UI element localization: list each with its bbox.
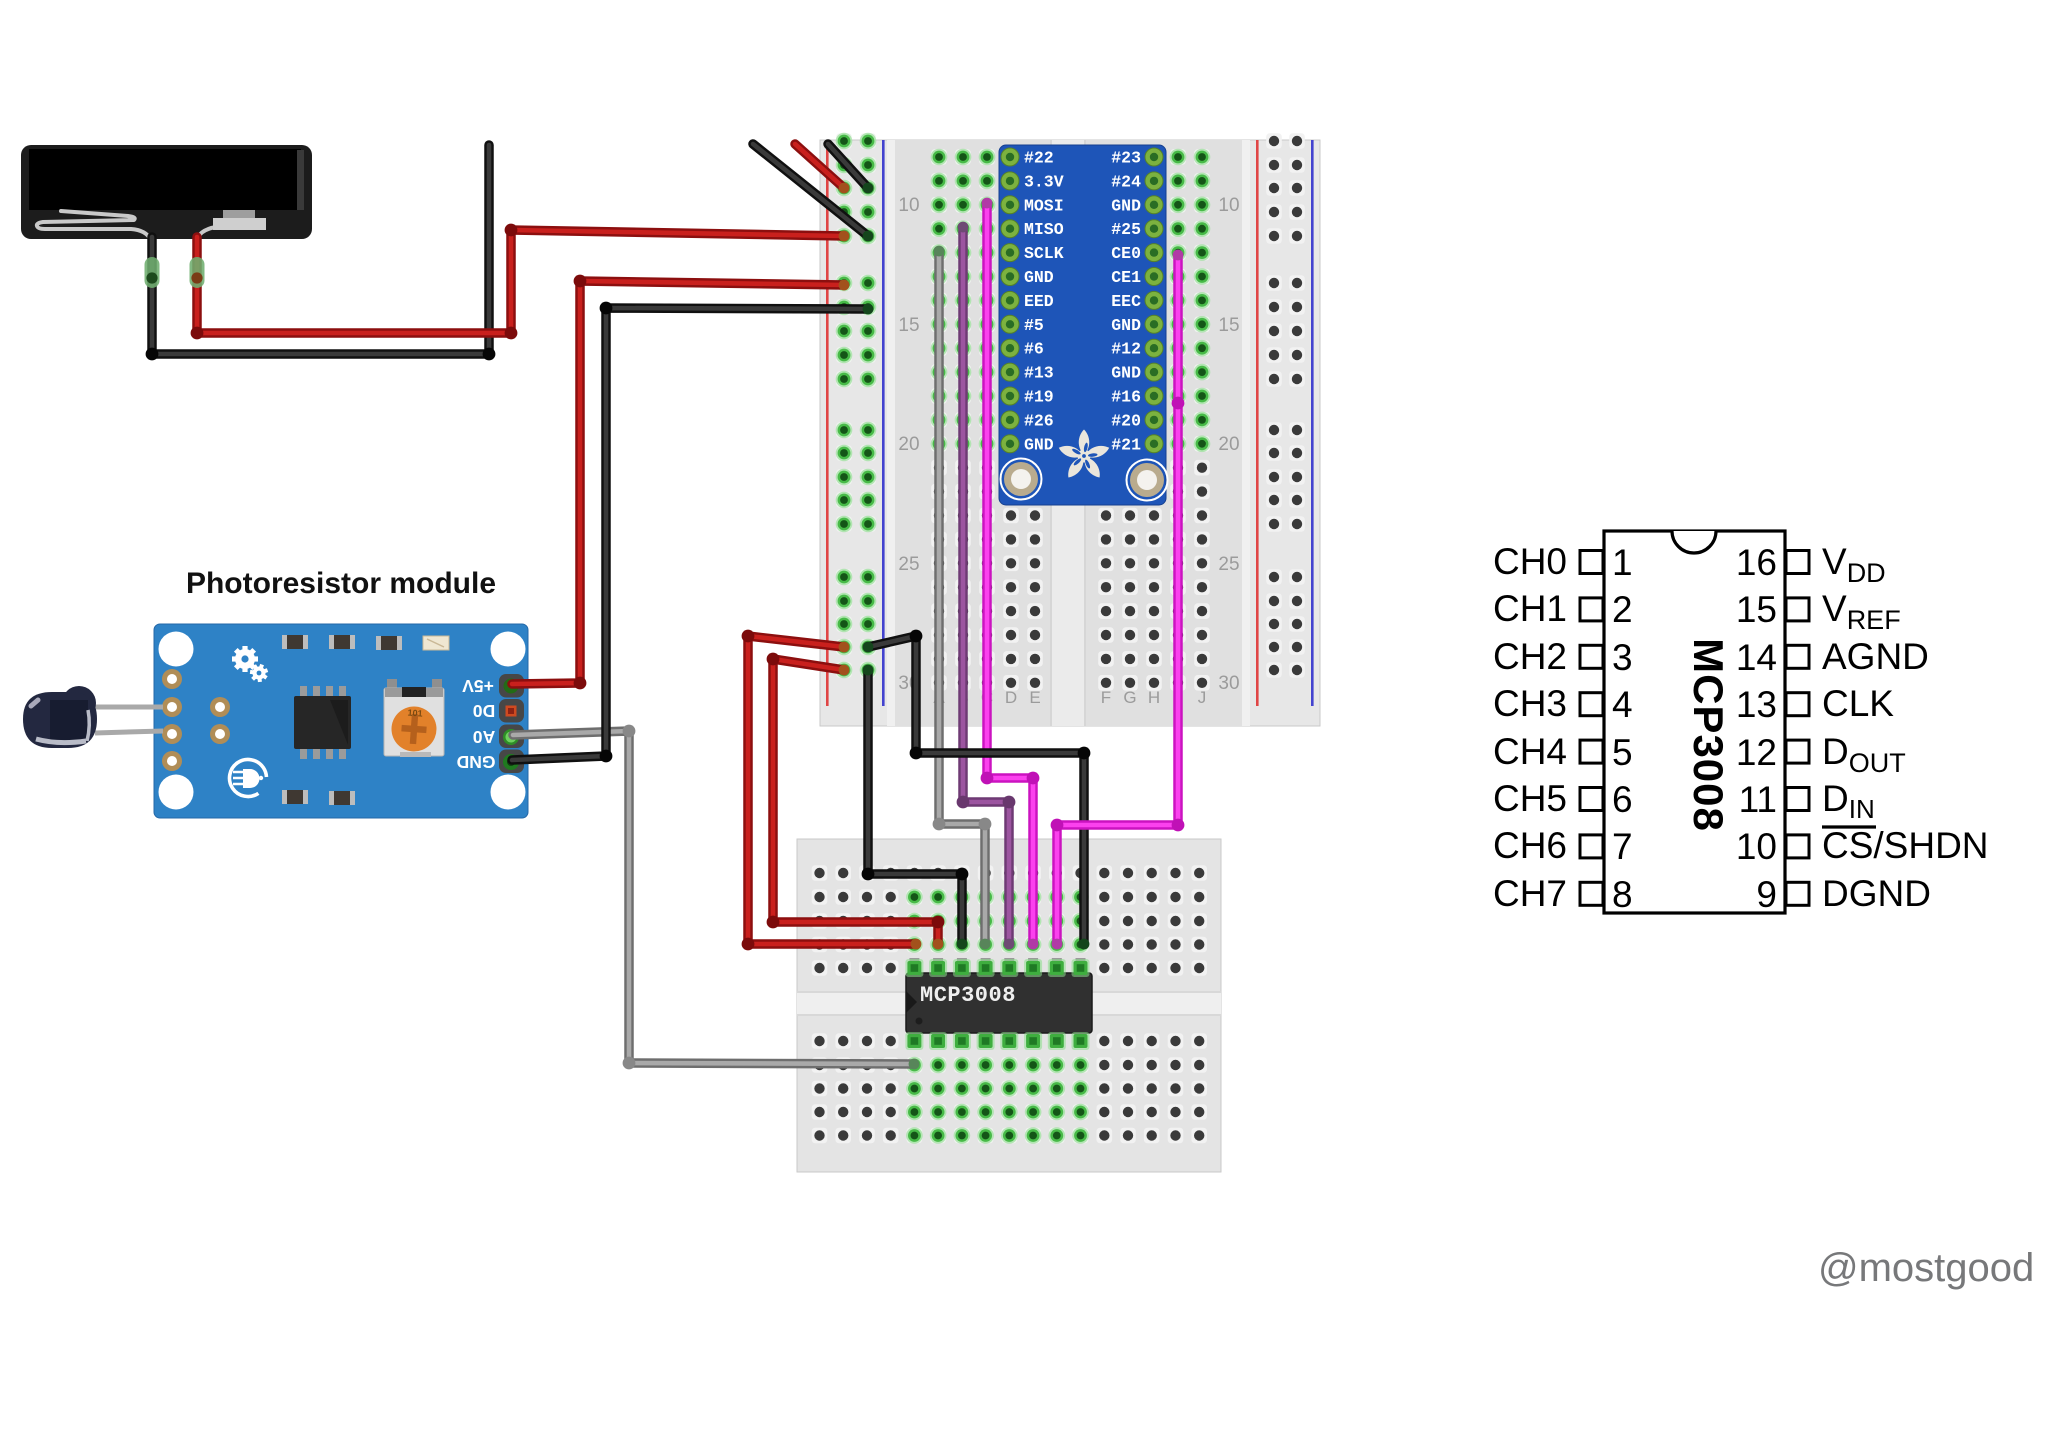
svg-text:13: 13 <box>1736 684 1777 725</box>
speaker red connector band <box>190 257 205 288</box>
IC U1 MCP3008 body <box>906 973 1092 1033</box>
wire black rail to ADC A <box>863 630 1091 950</box>
svg-text:CH5: CH5 <box>1493 778 1567 819</box>
svg-text:VREF: VREF <box>1822 588 1901 635</box>
svg-text:#19: #19 <box>1024 388 1054 407</box>
svg-text:#26: #26 <box>1024 411 1054 430</box>
svg-text:10: 10 <box>898 195 919 216</box>
MCP3008 pinout diagram <box>1604 531 1785 913</box>
svg-text:15: 15 <box>1218 315 1239 336</box>
wire black jumper A to rail <box>753 144 873 241</box>
wire module GND black <box>512 302 873 763</box>
svg-text:#21: #21 <box>1111 435 1141 454</box>
svg-text:15: 15 <box>898 315 919 336</box>
main board hole grid <box>931 149 1211 691</box>
svg-text:25: 25 <box>1218 554 1239 575</box>
right rail - line <box>1311 140 1314 706</box>
svg-text:9: 9 <box>1756 874 1777 915</box>
Pi cobbler module <box>999 145 1168 505</box>
svg-text:CH0: CH0 <box>1493 541 1567 582</box>
wire module A0 gray <box>513 725 919 1070</box>
svg-text:H: H <box>1148 688 1160 707</box>
svg-text:EED: EED <box>1024 292 1054 311</box>
svg-text:4: 4 <box>1612 684 1633 725</box>
right power rail holes <box>1266 133 1305 678</box>
svg-text:F: F <box>1101 688 1111 707</box>
svg-text:6: 6 <box>1612 779 1633 820</box>
svg-text:Photoresistor module: Photoresistor module <box>186 567 496 600</box>
svg-text:#12: #12 <box>1111 340 1141 359</box>
svg-text:MISO: MISO <box>1024 220 1064 239</box>
breadboard main <box>820 140 1320 726</box>
left rail - line <box>882 140 885 706</box>
wire red jumper to rail <box>795 144 849 193</box>
svg-text:15: 15 <box>1736 589 1777 630</box>
wire black jumper B to rail <box>828 144 873 193</box>
speaker component <box>21 145 312 240</box>
svg-text:MOSI: MOSI <box>1024 196 1064 215</box>
svg-text:EEC: EEC <box>1111 292 1141 311</box>
svg-text:CH6: CH6 <box>1493 825 1567 866</box>
svg-text:CS/SHDN: CS/SHDN <box>1822 825 1989 866</box>
svg-text:CH1: CH1 <box>1493 588 1567 629</box>
wire black rail to ADC B <box>862 665 969 950</box>
svg-text:#20: #20 <box>1111 411 1141 430</box>
svg-text:@mostgood: @mostgood <box>1818 1246 2034 1290</box>
svg-text:GND: GND <box>1024 435 1054 454</box>
svg-text:8: 8 <box>1612 874 1633 915</box>
left rail + line <box>826 140 829 706</box>
svg-text:SCLK: SCLK <box>1024 244 1064 263</box>
svg-text:MCP3008: MCP3008 <box>920 983 1016 1008</box>
svg-text:#24: #24 <box>1111 172 1141 191</box>
svg-text:D0: D0 <box>473 701 496 721</box>
svg-text:20: 20 <box>898 434 919 455</box>
IC U1 MCP3008 pins <box>909 958 1085 1047</box>
svg-text:+5V: +5V <box>462 676 494 696</box>
svg-text:5: 5 <box>1612 732 1633 773</box>
wire red rail to ADC A <box>742 630 922 951</box>
svg-text:CH3: CH3 <box>1493 683 1567 724</box>
svg-text:VDD: VDD <box>1822 541 1886 588</box>
wire gray SCLK <box>933 246 992 950</box>
wire purple MISO <box>957 222 1016 950</box>
wire speaker black lead <box>146 145 496 360</box>
svg-text:E: E <box>1029 688 1040 707</box>
svg-text:12: 12 <box>1736 732 1777 773</box>
wire magenta MOSI <box>981 198 1040 950</box>
svg-text:25: 25 <box>898 554 919 575</box>
svg-text:30: 30 <box>1218 673 1239 694</box>
svg-text:A0: A0 <box>473 727 496 747</box>
svg-text:#23: #23 <box>1111 149 1141 168</box>
svg-text:MCP3008: MCP3008 <box>1685 638 1732 832</box>
svg-text:#25: #25 <box>1111 220 1141 239</box>
svg-text:10: 10 <box>1736 826 1777 867</box>
breadboard small <box>797 839 1221 1172</box>
svg-text:J: J <box>1198 688 1207 707</box>
photoresistor LDR <box>23 686 163 748</box>
svg-text:1: 1 <box>1612 542 1633 583</box>
svg-text:DIN: DIN <box>1822 778 1875 824</box>
svg-text:#22: #22 <box>1024 149 1054 168</box>
svg-text:7: 7 <box>1612 826 1633 867</box>
small board hole grid <box>812 865 1207 1144</box>
wire magenta CE0 <box>1051 250 1185 950</box>
left power rail holes (connected) <box>836 133 877 679</box>
wire speaker red lead <box>191 224 850 340</box>
right rail + line <box>1256 140 1259 706</box>
IC U1 pin pads <box>905 959 1089 1050</box>
svg-text:20: 20 <box>1218 434 1239 455</box>
svg-text:14: 14 <box>1736 637 1777 678</box>
svg-text:CH2: CH2 <box>1493 636 1567 677</box>
svg-text:GND: GND <box>1111 364 1141 383</box>
svg-text:2: 2 <box>1612 589 1633 630</box>
svg-text:CE0: CE0 <box>1111 244 1141 263</box>
svg-text:101: 101 <box>407 708 423 719</box>
svg-text:D: D <box>1005 688 1017 707</box>
svg-text:GND: GND <box>1111 196 1141 215</box>
svg-text:CLK: CLK <box>1822 683 1894 724</box>
svg-text:16: 16 <box>1736 542 1777 583</box>
svg-text:#5: #5 <box>1024 316 1044 335</box>
svg-text:11: 11 <box>1739 779 1777 820</box>
svg-text:3.3V: 3.3V <box>1024 172 1064 191</box>
svg-text:CH4: CH4 <box>1493 731 1567 772</box>
wire module +5V red <box>512 275 849 690</box>
svg-text:CH7: CH7 <box>1493 873 1567 914</box>
svg-text:GND: GND <box>1024 268 1054 287</box>
svg-text:DOUT: DOUT <box>1822 731 1906 778</box>
svg-text:AGND: AGND <box>1822 636 1929 677</box>
svg-text:#6: #6 <box>1024 340 1044 359</box>
svg-text:DGND: DGND <box>1822 873 1931 914</box>
svg-text:10: 10 <box>1218 195 1239 216</box>
svg-text:CE1: CE1 <box>1111 268 1141 287</box>
wire red rail to ADC B <box>767 653 945 950</box>
svg-text:#16: #16 <box>1111 388 1141 407</box>
svg-text:#13: #13 <box>1024 364 1054 383</box>
svg-text:G: G <box>1123 688 1136 707</box>
column letter labels <box>933 688 1206 707</box>
row number labels <box>898 195 1239 694</box>
speaker black connector band <box>145 257 160 288</box>
svg-text:3: 3 <box>1612 637 1633 678</box>
svg-text:GND: GND <box>457 752 496 772</box>
photoresistor module board <box>154 624 528 818</box>
svg-text:GND: GND <box>1111 316 1141 335</box>
